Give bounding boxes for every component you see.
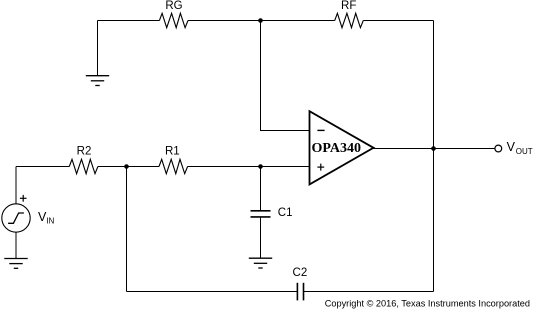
node B junction dot <box>124 164 129 169</box>
capacitor C1 <box>251 211 271 217</box>
svg-text:R2: R2 <box>77 146 92 158</box>
resistor RF <box>335 13 364 27</box>
op-amp U1 triangle <box>310 111 374 184</box>
svg-text:C2: C2 <box>293 267 308 279</box>
wire left vertical to ground <box>97 21 99 76</box>
svg-text:C1: C1 <box>278 207 293 219</box>
node C junction dot <box>258 164 263 169</box>
wire right vertical feedback <box>433 21 435 292</box>
wire input left segment <box>16 166 69 168</box>
node A junction dot RG/RF <box>258 18 263 23</box>
wire C1 to ground <box>260 217 262 258</box>
wire inverting input horizontal <box>260 130 310 132</box>
resistor R2 <box>69 159 98 173</box>
wire bottom left segment <box>127 291 298 293</box>
source VIN polarity plus <box>20 195 27 202</box>
wire node B vertical down <box>126 167 128 292</box>
source VIN circle <box>2 204 30 232</box>
svg-text:V: V <box>507 140 516 154</box>
ground (VIN) <box>4 259 27 269</box>
op-amp minus sign <box>317 129 324 131</box>
wire node C to op-amp + input <box>261 166 311 168</box>
resistor R1 <box>159 159 188 173</box>
wire node C to C1 <box>260 167 262 211</box>
capacitor C2 <box>297 283 303 301</box>
svg-text:OPA340: OPA340 <box>312 141 362 156</box>
svg-text:Copyright © 2016, Texas Instru: Copyright © 2016, Texas Instruments Inco… <box>325 298 530 308</box>
op-amp plus sign <box>317 164 324 171</box>
svg-text:OUT: OUT <box>516 147 533 156</box>
svg-text:RF: RF <box>341 0 356 12</box>
source VIN waveform <box>8 213 24 223</box>
ground (C1) <box>249 258 272 268</box>
node D junction dot (output/feedback) <box>431 146 436 151</box>
wire RF to right vertical <box>363 20 433 22</box>
resistor RG <box>159 13 188 27</box>
wire R2 to node B <box>98 166 159 168</box>
svg-text:RG: RG <box>165 0 182 12</box>
wire bottom right segment <box>304 291 434 293</box>
svg-text:R1: R1 <box>165 146 180 158</box>
terminal VOUT open circle <box>495 145 502 152</box>
wire RG to junction <box>188 20 261 22</box>
wire VIN to ground <box>15 232 17 258</box>
svg-text:IN: IN <box>46 217 54 226</box>
wire R1 to node C <box>188 166 261 168</box>
ground (top left) <box>86 76 109 86</box>
wire junction to RF <box>261 20 335 22</box>
wire top-left horizontal to RG <box>98 20 160 22</box>
wire VIN vertical <box>15 167 17 205</box>
wire inverting input vertical <box>260 21 262 131</box>
wire op-amp output <box>374 148 495 150</box>
